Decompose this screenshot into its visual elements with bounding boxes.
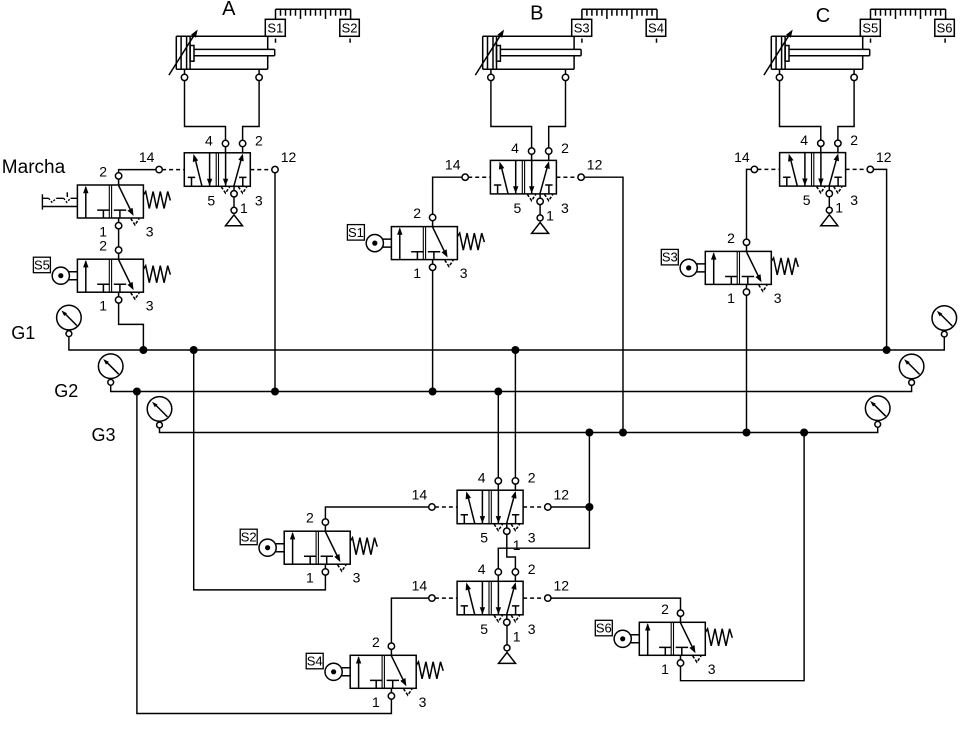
- svg-text:S2: S2: [342, 21, 358, 36]
- svg-text:S3: S3: [574, 21, 590, 36]
- node V4 pilot 12 junction: [585, 503, 593, 511]
- wire S2 valve port 2 to valve V4 pilot 14: [325, 507, 429, 519]
- svg-text:S3: S3: [662, 250, 678, 265]
- wire S4 valve port 1 to G2: [137, 392, 392, 714]
- svg-text:Marcha: Marcha: [2, 157, 66, 178]
- wire cylinder C right port to valve C port 2: [838, 80, 854, 140]
- wire valve V4 port 1 to valve V5 port 2: [507, 534, 516, 569]
- wire valve V5 port 1 to supply: [506, 626, 508, 645]
- valve V4 5/2: [412, 470, 570, 554]
- svg-text:S6: S6: [596, 621, 612, 636]
- wire valve V4 port 4 to G2: [497, 392, 499, 478]
- svg-text:B: B: [530, 3, 543, 25]
- svg-text:S4: S4: [648, 21, 664, 36]
- svg-text:S4: S4: [307, 654, 323, 669]
- svg-text:C: C: [816, 5, 830, 27]
- wire valve B pilot 12 to G3: [584, 177, 623, 432]
- wire Marcha valve port 1 to S5 valve port 2: [118, 229, 120, 247]
- svg-text:S2: S2: [241, 529, 257, 544]
- valve S1 3/2: [347, 205, 484, 281]
- svg-text:S5: S5: [862, 21, 878, 36]
- wire cylinder C left port to valve C port 4: [780, 80, 821, 140]
- valve S5 3/2: [33, 238, 170, 314]
- wire valve V5 pilot 12 to S6 valve port 2: [551, 598, 681, 610]
- wire S4 valve port 2 to valve V5 pilot 14: [391, 598, 429, 643]
- supply for valve A: [226, 207, 243, 226]
- svg-text:S5: S5: [34, 257, 50, 272]
- wire valve C port 1 to supply: [828, 197, 830, 208]
- wire S3 valve port 1 to G3: [746, 295, 748, 432]
- wire valve B port 1 to supply: [539, 204, 541, 215]
- svg-text:G2: G2: [54, 381, 78, 401]
- wire S3 valve port 2 to valve C pilot 14: [747, 169, 752, 239]
- gauge G3 left: [147, 397, 172, 428]
- G1 manifold line: [69, 330, 944, 350]
- wire valve V4 pilot 12 to node: [551, 506, 590, 508]
- wire S6 valve port 1 to G3: [681, 433, 805, 681]
- svg-text:G3: G3: [92, 425, 116, 445]
- wire cylinder B right port to valve B port 2: [549, 80, 566, 148]
- node G2-S4: [133, 388, 141, 396]
- wire Marcha valve port 2 to valve A pilot 14: [119, 170, 157, 173]
- gauge G3 right: [865, 396, 890, 427]
- gauge G1 left: [57, 305, 82, 336]
- node G3-B12: [619, 429, 627, 437]
- wire S1 valve port 2 to valve B pilot 14: [433, 177, 463, 214]
- supply for valve V5: [499, 645, 516, 664]
- wire valve A port 1 to supply: [233, 197, 235, 208]
- cylinder B: [475, 9, 665, 80]
- cylinder A: [169, 9, 359, 80]
- gauge G2 right: [899, 354, 924, 385]
- node G2-A12: [271, 388, 279, 396]
- node G1-V4.2: [511, 346, 519, 354]
- G3 manifold line: [160, 422, 878, 433]
- wire G3 down to node and V5 port 4 link: [498, 433, 589, 569]
- wire cylinder A left port to valve A port 4: [185, 80, 226, 140]
- valve S6 3/2: [595, 601, 732, 677]
- valve C 5/2: [734, 132, 892, 216]
- valve V5 5/2: [412, 561, 570, 645]
- wire cylinder B left port to valve B port 4: [491, 80, 532, 148]
- valve Marcha 3/2: [42, 164, 170, 240]
- svg-text:S6: S6: [937, 21, 953, 36]
- valve A 5/2: [139, 132, 297, 216]
- node G3-V5.4: [585, 429, 593, 437]
- valve S2 3/2: [240, 510, 377, 586]
- valve S4 3/2: [306, 634, 443, 710]
- svg-text:G1: G1: [11, 323, 35, 343]
- svg-text:A: A: [222, 0, 236, 20]
- node G1-C12: [883, 346, 891, 354]
- node G2-S1: [429, 388, 437, 396]
- valve B 5/2: [445, 140, 603, 224]
- node G3-S6: [800, 429, 808, 437]
- valve S3 3/2: [661, 230, 798, 306]
- wire cylinder A right port to valve A port 2: [243, 80, 260, 140]
- wire valve A pilot 12 to G2: [274, 173, 276, 392]
- node G1-S2: [190, 346, 198, 354]
- wire S2 valve port 1 to G1: [194, 350, 326, 590]
- wire valve C pilot 12 to G1: [874, 169, 887, 350]
- G2 manifold line: [111, 380, 912, 392]
- gauge G1 right: [932, 306, 957, 337]
- wire S5 valve port 1 to G1: [119, 303, 144, 350]
- supply for valve B: [532, 215, 549, 234]
- gauge G2 left: [98, 354, 123, 385]
- node G1-S5: [139, 346, 147, 354]
- node G3-S3: [743, 429, 751, 437]
- wire S1 valve port 1 to G2: [432, 270, 434, 391]
- svg-text:S1: S1: [348, 225, 364, 240]
- node G2-V4.4: [494, 388, 502, 396]
- wire valve V4 port 2 to G1: [514, 350, 516, 478]
- svg-text:S1: S1: [267, 21, 283, 36]
- supply for valve C: [821, 207, 838, 226]
- cylinder C: [764, 9, 954, 80]
